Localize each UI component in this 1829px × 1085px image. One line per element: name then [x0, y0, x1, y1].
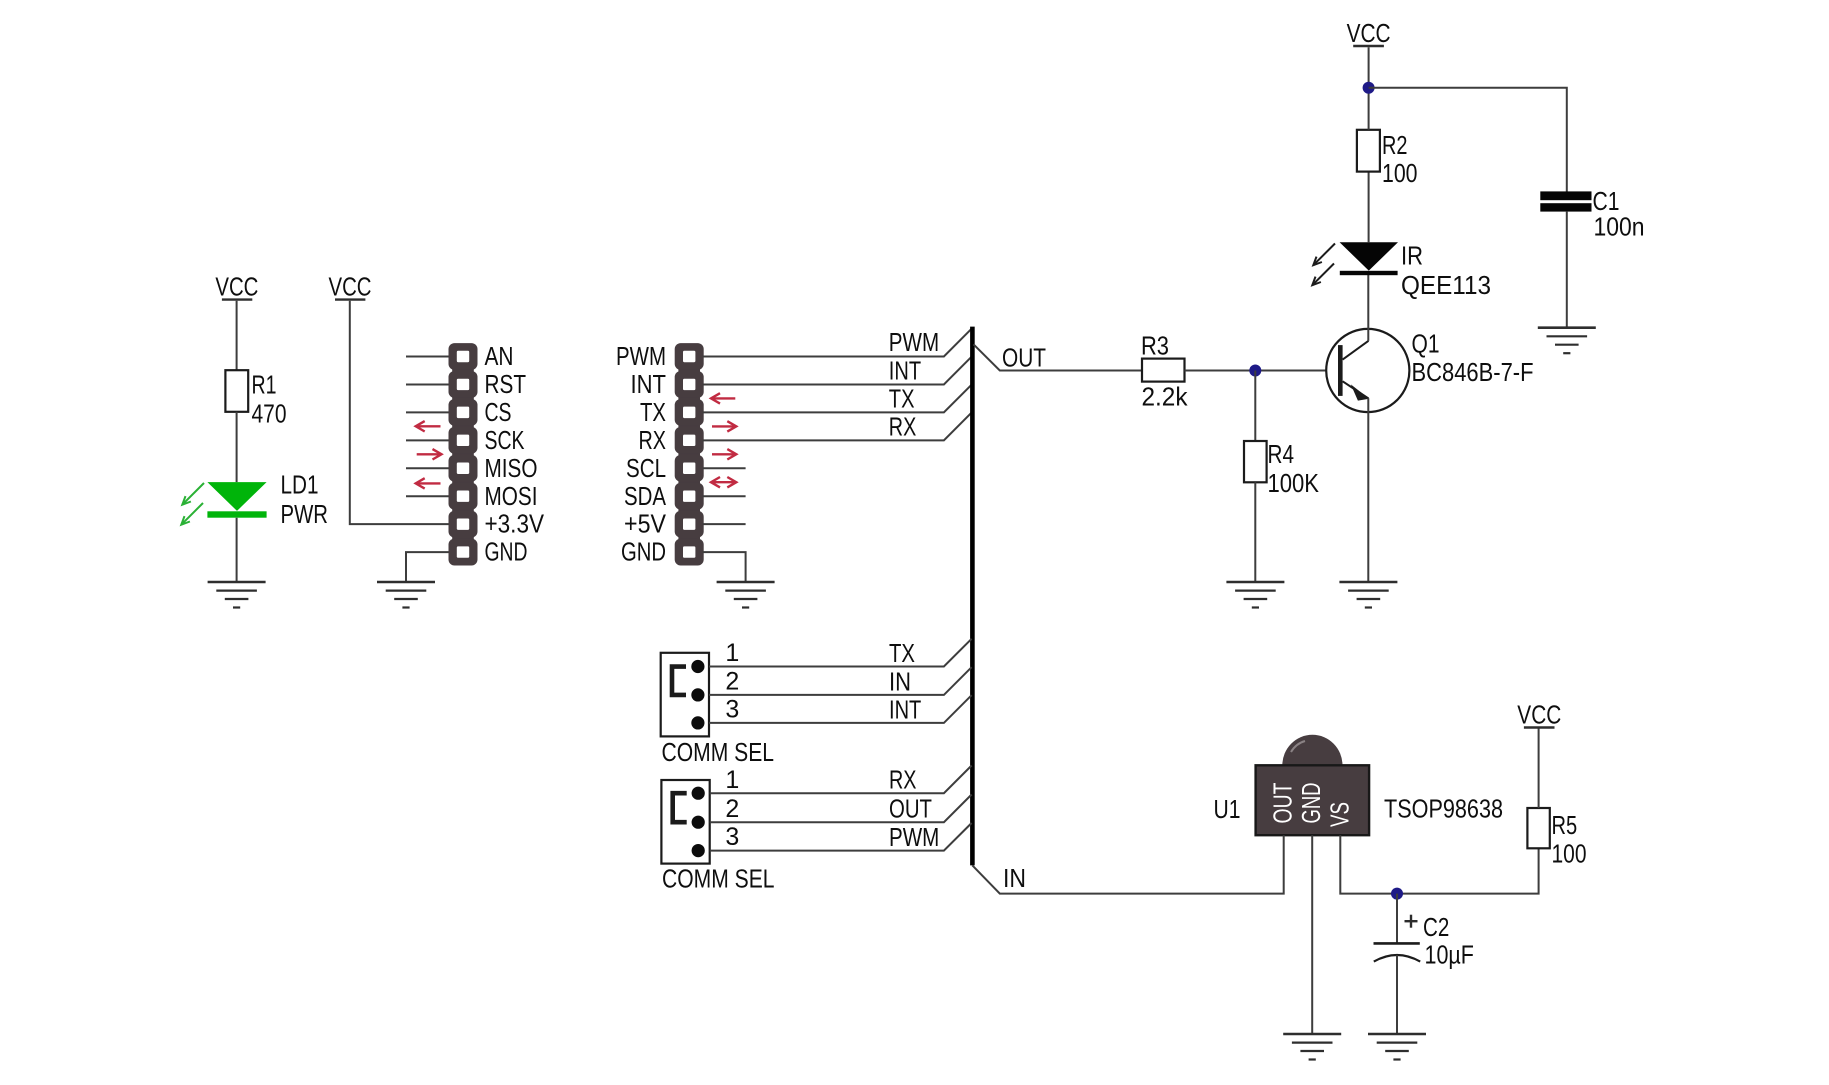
direction arrow SCK (in): [416, 421, 441, 431]
header J1 pin RST stub wire: [406, 383, 449, 385]
wire U1 VS pin to R5/C2: [1340, 835, 1538, 893]
wire R3 to Q1 base: [1185, 370, 1339, 372]
svg-text:100: 100: [1382, 158, 1418, 188]
svg-text:RX: RX: [889, 412, 917, 442]
ground (LD1): [208, 582, 266, 608]
resistor R3: [1141, 331, 1188, 412]
wire OUT branch from bus: [974, 344, 1143, 370]
ground (R4): [1226, 582, 1284, 608]
svg-text:TX: TX: [889, 638, 915, 668]
direction arrow RX (out): [712, 421, 736, 431]
wire U1 GND pin to ground: [1311, 835, 1313, 1034]
svg-text:SCL: SCL: [626, 453, 666, 483]
connector COMM SEL 2 body: [661, 780, 709, 864]
resistor R4: [1244, 439, 1320, 498]
svg-text:OUT: OUT: [889, 794, 932, 824]
connector COMM SEL 1 pin 3 dot: [691, 716, 704, 729]
resistor R5: [1527, 808, 1586, 869]
direction arrow TX (in): [711, 393, 735, 403]
svg-text:2: 2: [725, 668, 739, 696]
resistor R1: [225, 370, 286, 429]
connector COMM SEL 1 body: [661, 653, 709, 737]
power VCC net symbol (right): [1517, 700, 1561, 730]
wire RX to bus: [703, 413, 972, 441]
header J1 pin MOSI stub wire: [406, 495, 449, 497]
wire junction to R4: [1254, 371, 1256, 442]
svg-text:MISO: MISO: [485, 453, 538, 483]
transistor Q1 BC846B-7-F: [1326, 329, 1533, 413]
svg-text:3: 3: [725, 823, 739, 851]
direction arrow MOSI (in): [416, 478, 441, 488]
svg-text:U1: U1: [1214, 794, 1241, 824]
resistor R2: [1357, 130, 1418, 188]
svg-text:GND: GND: [621, 537, 666, 567]
svg-text:VCC: VCC: [1347, 18, 1391, 48]
node junction (R3/R4/Q1 base): [1249, 365, 1261, 377]
LED light arrow 1: [182, 483, 204, 505]
connector COMM SEL 2 pin 1 dot: [692, 787, 705, 800]
svg-text:IN: IN: [1003, 863, 1026, 893]
svg-text:3: 3: [725, 696, 739, 724]
svg-text:LD1: LD1: [281, 469, 319, 499]
svg-text:+3.3V: +3.3V: [485, 509, 545, 539]
connector COMM SEL 2 pin 3 dot: [692, 844, 705, 857]
svg-text:TX: TX: [640, 397, 666, 427]
svg-text:PWM: PWM: [889, 327, 939, 357]
wire Q1 emitter to ground: [1367, 398, 1369, 582]
svg-text:100K: 100K: [1268, 468, 1320, 498]
direction arrow SCL (out): [712, 449, 736, 459]
wire Q1 collector to IR diode: [1367, 275, 1369, 341]
svg-text:Q1: Q1: [1412, 329, 1440, 359]
svg-text:R1: R1: [252, 370, 277, 400]
power VCC net symbol (header left): [329, 272, 372, 302]
ground (J2 GND): [717, 582, 775, 608]
power VCC net symbol (left): [215, 272, 258, 302]
IR light arrow 1: [1313, 244, 1335, 266]
wire COMM SEL2 pin1 RX to bus: [710, 766, 972, 794]
wire TX to bus: [703, 385, 972, 413]
svg-text:BC846B-7-F: BC846B-7-F: [1412, 357, 1534, 387]
svg-text:OUT: OUT: [1268, 782, 1298, 823]
ground (U1 GND): [1283, 1034, 1341, 1060]
header J2 pin labels: [616, 341, 667, 567]
connector COMM SEL 1 pin 1 dot: [691, 660, 704, 673]
header J2 (mikroBUS right) body: [675, 343, 704, 565]
LED light arrow 2: [181, 503, 203, 525]
svg-text:VCC: VCC: [329, 272, 372, 302]
svg-text:R2: R2: [1382, 130, 1408, 160]
wire IN net from bus to U1 OUT pin: [972, 835, 1283, 893]
header J1 pin SCK stub wire: [406, 439, 449, 441]
svg-text:+5V: +5V: [624, 509, 667, 539]
svg-text:AN: AN: [485, 341, 514, 371]
wire COMM SEL1 pin3 INT to bus: [709, 695, 972, 723]
connector COMM SEL 1 pin 2 dot: [691, 688, 704, 701]
svg-text:INT: INT: [631, 369, 667, 399]
svg-text:CS: CS: [485, 397, 512, 427]
svg-text:SCK: SCK: [485, 425, 525, 455]
IR light arrow 2: [1312, 264, 1334, 286]
svg-text:RX: RX: [639, 425, 667, 455]
ground (C2): [1368, 1034, 1426, 1060]
wire GND pin to ground (J1): [406, 552, 449, 582]
capacitor C2 (polarized): [1374, 912, 1474, 970]
wire R4 to ground: [1254, 482, 1256, 582]
svg-text:C2: C2: [1423, 912, 1449, 942]
direction arrow SDA (bidir): [711, 477, 736, 487]
svg-text:GND: GND: [485, 537, 528, 567]
wire SDA stub: [703, 495, 746, 497]
header J1 (mikroBUS left) body: [449, 343, 478, 565]
svg-text:100n: 100n: [1594, 212, 1645, 242]
wire COMM SEL2 pin3 PWM to bus: [710, 823, 972, 851]
svg-text:VS: VS: [1325, 802, 1355, 827]
svg-text:2: 2: [725, 795, 739, 823]
svg-text:INT: INT: [889, 694, 921, 724]
svg-text:COMM SEL: COMM SEL: [662, 737, 775, 767]
svg-text:PWM: PWM: [889, 822, 939, 852]
capacitor C1: [1540, 186, 1644, 242]
ground (J1 GND): [377, 582, 435, 608]
svg-text:100: 100: [1552, 839, 1587, 869]
LED LD1 PWR (green): [207, 469, 328, 529]
svg-text:PWR: PWR: [281, 499, 329, 529]
ground (Q1 emitter): [1339, 582, 1397, 608]
svg-text:470: 470: [252, 399, 287, 429]
svg-text:RX: RX: [889, 765, 917, 795]
wire C2 to ground: [1396, 955, 1398, 1034]
svg-text:IN: IN: [889, 666, 911, 696]
wire LD1 to ground: [236, 518, 238, 582]
svg-text:1: 1: [725, 766, 739, 794]
svg-text:R4: R4: [1268, 439, 1295, 469]
wire VCC to +3.3V pin: [350, 301, 449, 524]
svg-text:GND: GND: [1296, 783, 1326, 824]
svg-text:TSOP98638: TSOP98638: [1384, 794, 1503, 824]
wire SCL stub: [703, 467, 746, 469]
wire COMM SEL1 pin1 TX to bus: [709, 639, 972, 667]
svg-text:10µF: 10µF: [1425, 940, 1474, 970]
svg-text:PWM: PWM: [616, 341, 666, 371]
svg-text:QEE113: QEE113: [1401, 270, 1491, 300]
svg-text:OUT: OUT: [1002, 343, 1046, 373]
svg-text:TX: TX: [889, 384, 915, 414]
header J1 pin labels: [485, 341, 545, 567]
header J1 pin CS stub wire: [406, 411, 449, 413]
ground (C1): [1538, 328, 1596, 354]
wire PWM to bus: [703, 329, 972, 357]
node junction (VCC/R2/C1): [1363, 82, 1375, 94]
svg-text:RST: RST: [485, 369, 527, 399]
wire R2 to IR diode: [1368, 172, 1370, 243]
wire junction to C2: [1396, 894, 1398, 944]
svg-text:VCC: VCC: [1517, 700, 1561, 730]
header J1 pin AN stub wire: [406, 356, 449, 358]
connector COMM SEL 2 pin 2 dot: [692, 816, 705, 829]
svg-text:1: 1: [725, 639, 739, 667]
IR receiver U1 TSOP98638: [1214, 735, 1504, 835]
wire VCC to R1: [236, 301, 238, 370]
wire COMM SEL1 pin2 IN to bus: [709, 667, 972, 695]
header J1 pin MISO stub wire: [406, 467, 449, 469]
diode IR QEE113: [1340, 241, 1491, 301]
wire C1 to ground: [1566, 212, 1568, 328]
wire R1 to LD1: [236, 412, 238, 482]
svg-text:VCC: VCC: [215, 272, 258, 302]
svg-text:COMM SEL: COMM SEL: [662, 863, 775, 893]
power VCC net symbol (top): [1347, 18, 1391, 48]
wire +5V stub: [703, 523, 746, 525]
svg-text:2.2k: 2.2k: [1142, 382, 1189, 412]
svg-text:R5: R5: [1552, 810, 1578, 840]
svg-text:MOSI: MOSI: [485, 481, 538, 511]
svg-text:SDA: SDA: [624, 481, 667, 511]
wire INT to bus: [703, 357, 972, 385]
bus (vertical net bundle): [970, 327, 975, 866]
wire VCC to R2: [1368, 47, 1370, 130]
wire COMM SEL2 pin2 OUT to bus: [710, 795, 972, 823]
svg-text:IR: IR: [1401, 241, 1423, 271]
svg-text:INT: INT: [889, 356, 921, 386]
wire junction to C1: [1369, 88, 1567, 192]
direction arrow MISO (out): [417, 449, 442, 459]
node junction (VS/C2/R5): [1391, 888, 1403, 900]
wire GND pin to ground (J2): [703, 552, 746, 582]
svg-text:R3: R3: [1141, 331, 1169, 361]
wire VCC to R5: [1538, 727, 1540, 808]
